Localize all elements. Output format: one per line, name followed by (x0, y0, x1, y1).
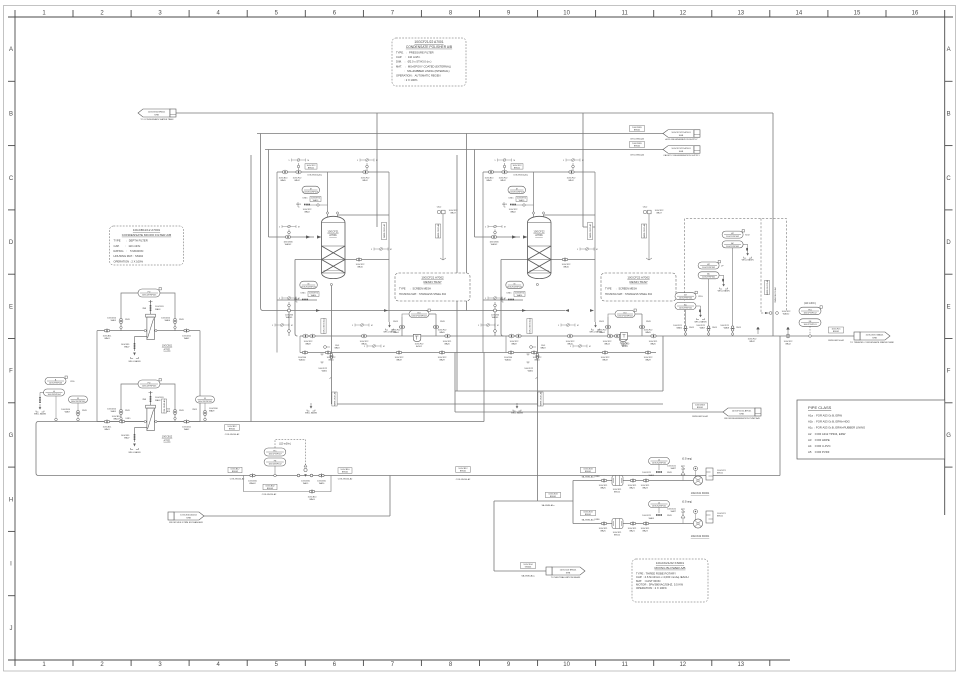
svg-text:10GCB/SP102: 10GCB/SP102 (268, 463, 282, 465)
svg-text:WA12: WA12 (568, 179, 574, 182)
svg-text:10GCF22/SP502: 10GCF22/SP502 (507, 286, 523, 288)
svg-text:DN15: DN15 (667, 515, 672, 517)
svg-text:SWW-GN50-A5: SWW-GN50-A5 (589, 223, 592, 238)
svg-text:CRG: CRG (70, 381, 75, 383)
svg-text:OPERATION : 2 X 100%: OPERATION : 2 X 100% (114, 259, 144, 263)
svg-text:(0.5 barg): (0.5 barg) (682, 501, 692, 504)
svg-text:BR001: BR001 (697, 407, 704, 409)
row H valves (250, 474, 253, 477)
svg-text:10GCF21/22 A7001: 10GCF21/22 A7001 (414, 40, 443, 44)
svg-text:WA102: WA102 (491, 243, 498, 246)
svg-text:DN15: DN15 (301, 293, 306, 295)
svg-text:WA03: WA03 (155, 308, 161, 311)
svg-text:10GCF22 A7002: 10GCF22 A7002 (627, 275, 650, 279)
svg-text:15: 15 (854, 11, 861, 17)
svg-text:G: G (946, 433, 951, 439)
svg-text:10GCK2/SP501: 10GCK2/SP501 (652, 505, 667, 507)
instrument 10GCF22 SP502 (506, 281, 524, 289)
svg-text:TO NEUTRALIZATION BASIN: TO NEUTRALIZATION BASIN (551, 576, 581, 579)
svg-text:10GCK22 KN001: 10GCK22 KN001 (691, 535, 710, 538)
instrument 10GCF22 SP501 (508, 186, 526, 194)
svg-text:10GCW10 BR001: 10GCW10 BR001 (148, 112, 166, 114)
svg-text:E: E (947, 304, 951, 310)
svg-text:CRG-GN50-A4: CRG-GN50-A4 (630, 154, 645, 157)
svg-text:WA27: WA27 (671, 467, 677, 470)
svg-text:WA18: WA18 (540, 347, 545, 350)
analyzer stack 10GCP/SP301 (698, 262, 719, 269)
svg-text:A2 : FOR A312 TP304, ERW: A2 : FOR A312 TP304, ERW (808, 432, 846, 436)
svg-text:(0.5 barg): (0.5 barg) (682, 458, 692, 461)
svg-text:5: 5 (352, 325, 353, 327)
flag: to neutralization basin (552, 567, 585, 575)
svg-text:WA002: WA002 (249, 482, 256, 485)
svg-text:14: 14 (796, 11, 803, 17)
svg-text:BR002: BR002 (634, 146, 641, 148)
svg-text:10GCP/SP003: 10GCP/SP003 (49, 382, 63, 384)
svg-text:5: 5 (563, 160, 564, 162)
svg-text:WA05: WA05 (649, 474, 655, 477)
svg-text:BR001: BR001 (634, 130, 641, 132)
svg-text:WA08: WA08 (724, 327, 730, 330)
svg-text:SWW-GN150-A2: SWW-GN150-A2 (692, 415, 709, 418)
svg-text:WA01: WA01 (104, 337, 110, 340)
CB cluster 10GCF22 (643, 210, 647, 214)
svg-text:WA02: WA02 (184, 428, 190, 431)
svg-text:FROM SIDE STRM EXCHANGER: FROM SIDE STRM EXCHANGER (169, 521, 203, 524)
svg-text:10GCB11: 10GCB11 (155, 397, 165, 399)
svg-text:WA04: WA04 (599, 331, 605, 334)
svg-text:DN15: DN15 (712, 327, 717, 329)
svg-text:5: 5 (279, 298, 280, 300)
svg-text:10GCDP/SP500: 10GCDP/SP500 (71, 401, 86, 403)
svg-text:10GCB11: 10GCB11 (162, 345, 173, 348)
svg-text:CON-GN100-A2: CON-GN100-A2 (225, 433, 240, 436)
svg-text:CON-GN150-A2: CON-GN150-A2 (338, 478, 353, 481)
svg-text:CRG: CRG (698, 296, 703, 298)
svg-text:10GCF22: 10GCF22 (533, 230, 545, 234)
svg-text:DN15: DN15 (667, 472, 672, 474)
svg-text:16: 16 (912, 11, 919, 17)
svg-text:TO TREATED CONDENSATE WATER TA: TO TREATED CONDENSATE WATER TANK (850, 341, 894, 344)
svg-text:10GCF22/SP501: 10GCF22/SP501 (509, 191, 525, 193)
svg-text:WA01: WA01 (104, 428, 110, 431)
svg-text:WA11: WA11 (534, 358, 540, 361)
svg-text:10GCP/SP302: 10GCP/SP302 (702, 267, 716, 269)
svg-text:A: A (947, 47, 951, 53)
analyzer stack 10GCP/SP201 (675, 293, 696, 300)
svg-text:WA21: WA21 (629, 530, 635, 533)
resin trap symbol 10GCF21 (413, 334, 421, 341)
svg-text:CON-GN150-A1a: CON-GN150-A1a (307, 173, 323, 176)
svg-text:B: B (947, 112, 951, 118)
svg-text:WA05: WA05 (439, 331, 445, 334)
svg-text:5: 5 (279, 227, 280, 229)
svg-text:DN15: DN15 (296, 204, 301, 206)
vessel 10GCF22 inlet arrow (523, 235, 528, 238)
svg-text:FIC: FIC (273, 450, 277, 452)
svg-text:H: H (9, 497, 13, 503)
bottom drain 10GCF22 (530, 346, 533, 349)
svg-text:A7001: A7001 (164, 349, 172, 352)
svg-text:DN15: DN15 (736, 327, 741, 329)
svg-text:12: 12 (679, 11, 686, 17)
flag: from side stream exchanger (174, 512, 204, 520)
svg-text:BR012: BR012 (614, 492, 621, 494)
header instruments left (45, 378, 66, 385)
svg-text:RO: RO (418, 312, 421, 314)
svg-text:(110 m3/hr.): (110 m3/hr.) (804, 302, 816, 305)
filter 10GCB12 (146, 405, 156, 408)
svg-text:SWW-GN150-A2: SWW-GN150-A2 (774, 287, 777, 303)
svg-text:DN80: DN80 (595, 519, 600, 521)
svg-text:CONDENSATE POLISHER A/B: CONDENSATE POLISHER A/B (406, 45, 453, 49)
svg-text:SWW-GN25-A2: SWW-GN25-A2 (333, 391, 336, 406)
svg-text:WA23: WA23 (642, 487, 648, 490)
svg-text:SWW-GN50-A2: SWW-GN50-A2 (437, 223, 440, 238)
PD instrument 10GCB12 (138, 380, 160, 388)
inlet valve 10GCF22 (491, 236, 494, 239)
svg-text:RESIN TRAP: RESIN TRAP (630, 280, 648, 284)
svg-text:DN15: DN15 (179, 319, 184, 321)
svg-text:12: 12 (679, 662, 686, 668)
svg-text:WA12: WA12 (785, 343, 791, 346)
svg-text:10GCF21/22 A7001: 10GCF21/22 A7001 (671, 147, 691, 150)
svg-text:5: 5 (485, 298, 486, 300)
svg-text:5: 5 (558, 325, 559, 327)
svg-text:HOUSING MAT. : STAINLESS STEEL: HOUSING MAT. : STAINLESS STEEL 304 (399, 293, 447, 296)
main pipe runs (36, 113, 855, 571)
svg-text:WA18: WA18 (334, 347, 339, 350)
flag: caustic regeneration supply (663, 146, 694, 154)
svg-text:A: A (9, 47, 13, 53)
vessel 10GCF22 A7001 (528, 216, 552, 278)
svg-text:(110 m3/hr.): (110 m3/hr.) (279, 443, 291, 446)
svg-text:CON-GN150-A2: CON-GN150-A2 (262, 493, 277, 496)
svg-text:A4 : FOR U-PVC: A4 : FOR U-PVC (808, 444, 831, 448)
svg-text:SHB: SHB (679, 151, 684, 153)
svg-text:CONDENSATE MICRO FILTER A/B: CONDENSATE MICRO FILTER A/B (122, 233, 171, 237)
svg-text:WELL BASIN: WELL BASIN (129, 360, 141, 363)
svg-text:RO: RO (624, 312, 627, 314)
svg-text:DN15: DN15 (502, 204, 507, 206)
svg-text:D: D (9, 240, 14, 246)
svg-text:5: 5 (364, 346, 365, 348)
svg-text:WA23: WA23 (642, 530, 648, 533)
svg-text:5: 5 (357, 160, 358, 162)
svg-text:10GCW20 WA001: 10GCW20 WA001 (866, 334, 885, 337)
svg-text:10GCF21/22 A7001: 10GCF21/22 A7001 (671, 131, 691, 134)
svg-text:10GCP/SP201: 10GCP/SP201 (679, 307, 693, 309)
product line valves 10GCF22 (509, 335, 512, 338)
product line valves 10GCF21 (303, 335, 306, 338)
pipe class table (797, 400, 945, 459)
svg-text:DN15: DN15 (125, 319, 130, 321)
svg-text:SHB: SHB (566, 572, 571, 574)
svg-text:WA06: WA06 (165, 319, 171, 322)
bottom drain 10GCF21 (324, 346, 327, 349)
svg-text:BR003: BR003 (267, 488, 274, 490)
svg-text:WA04: WA04 (113, 417, 119, 420)
svg-text:CON-GN150-A1a: CON-GN150-A1a (528, 317, 531, 334)
svg-text:10GCK21/22 KN001: 10GCK21/22 KN001 (656, 561, 684, 565)
svg-text:BR011: BR011 (308, 168, 315, 170)
svg-text:BR001: BR001 (550, 496, 557, 498)
svg-text:WELL BASIN: WELL BASIN (695, 320, 707, 323)
svg-text:SWW-GN25-A2: SWW-GN25-A2 (539, 391, 542, 406)
svg-text:DN15: DN15 (599, 321, 604, 323)
svg-text:WELL BASIN: WELL BASIN (742, 259, 754, 262)
svg-text:10GCB11: 10GCB11 (155, 306, 165, 308)
svg-text:DN15: DN15 (303, 198, 308, 200)
svg-text:TO CONDENSATE WATER TANK: TO CONDENSATE WATER TANK (140, 118, 174, 121)
svg-text:5: 5 (272, 325, 273, 327)
backwash header valves 10GCF22 (508, 351, 511, 354)
title box: mixing blower (632, 559, 708, 602)
svg-text:10GCB/SP004: 10GCB/SP004 (47, 394, 61, 396)
svg-text:WA19: WA19 (303, 482, 309, 485)
svg-text:SA-GN80-A1a: SA-GN80-A1a (542, 504, 556, 507)
svg-text:BR011: BR011 (514, 168, 521, 170)
svg-text:WA102: WA102 (299, 358, 306, 361)
svg-text:WA25: WA25 (600, 487, 606, 490)
svg-text:WA09: WA09 (305, 343, 311, 346)
svg-text:B: B (9, 112, 13, 118)
svg-text:CON-GN150-A1a: CON-GN150-A1a (322, 317, 325, 334)
svg-text:WA07: WA07 (124, 346, 130, 349)
svg-text:WA12: WA12 (500, 179, 506, 182)
svg-text:WA103: WA103 (286, 316, 293, 319)
svg-text:WA21: WA21 (629, 487, 635, 490)
svg-text:WA12: WA12 (749, 340, 755, 343)
svg-text:DN15: DN15 (125, 410, 130, 412)
svg-text:SA-GN80-A1a: SA-GN80-A1a (582, 476, 596, 479)
svg-text:TYPE. : PRESSURE FILTER: TYPE. : PRESSURE FILTER (396, 51, 434, 55)
flag: acid regeneration supply (663, 130, 694, 138)
svg-text:TYPE : DEPTH FILTER: TYPE : DEPTH FILTER (114, 239, 148, 243)
svg-text:WA10: WA10 (621, 344, 627, 347)
svg-text:10GCP/SP101: 10GCP/SP101 (803, 324, 817, 326)
svg-text:10GCK21: 10GCK21 (642, 515, 652, 517)
svg-text:10GCF21 A7002: 10GCF21 A7002 (421, 275, 444, 279)
svg-text:WA29: WA29 (645, 358, 651, 361)
instrument 10GCF21 SP502 (300, 281, 318, 289)
svg-text:A1c : FOR A53 Gr.B, ERW+RUBBE: A1c : FOR A53 Gr.B, ERW+RUBBER LINING (808, 426, 865, 430)
svg-text:WA13: WA13 (519, 199, 525, 202)
svg-text:CAP. : 110 m3/hr.: CAP. : 110 m3/hr. (114, 244, 142, 248)
svg-text:SHB: SHB (154, 114, 159, 116)
svg-text:WA02: WA02 (510, 210, 516, 213)
svg-text:WA14: WA14 (311, 294, 317, 297)
svg-text:A7001: A7001 (329, 233, 337, 237)
svg-text:DN15: DN15 (646, 321, 651, 323)
svg-text:BR011: BR011 (717, 516, 724, 518)
micro filter 10GCB12 piping (97, 384, 200, 442)
svg-text:WA21: WA21 (528, 370, 534, 373)
svg-text:CON-GN150-A2: CON-GN150-A2 (230, 478, 245, 481)
filter 10GCB11 (146, 314, 156, 317)
blower train 10GCK21 (581, 467, 596, 473)
resin trap symbol 10GCF22 (619, 334, 627, 341)
svg-text:C: C (946, 176, 951, 182)
svg-text:WA20: WA20 (444, 343, 450, 346)
svg-text:10GCB11/12 A7001: 10GCB11/12 A7001 (133, 228, 161, 232)
svg-text:2M8: 2M8 (142, 308, 146, 310)
svg-text:5: 5 (485, 227, 486, 229)
svg-text:WA04: WA04 (393, 331, 399, 334)
svg-text:WA17: WA17 (450, 212, 456, 215)
svg-text:WA07: WA07 (700, 327, 706, 330)
svg-text:CON-GN80-A1c: CON-GN80-A1c (163, 399, 166, 413)
polisher unit 10GCF22 piping (475, 172, 643, 353)
svg-text:C: C (9, 176, 14, 182)
svg-text:GN004: GN004 (525, 567, 532, 569)
svg-text:10GCK21: 10GCK21 (642, 472, 652, 474)
svg-text:A1a : FOR A53 Gr.B, ERW: A1a : FOR A53 Gr.B, ERW (808, 414, 842, 418)
svg-text:WA16: WA16 (563, 266, 569, 269)
svg-text:5: 5 (495, 160, 496, 162)
svg-text:WA152: WA152 (783, 313, 790, 316)
CB cluster 10GCF21 (437, 210, 441, 214)
svg-text:WA05: WA05 (111, 410, 117, 413)
title box: condensate micro filter (110, 226, 184, 265)
micro filter 10GCB11 piping (97, 293, 200, 422)
svg-text:10GCF21: 10GCF21 (327, 230, 339, 234)
svg-text:WA102: WA102 (285, 243, 292, 246)
svg-text:E: E (9, 304, 13, 310)
resin trap box 10GCF22 (601, 273, 676, 301)
svg-text:10GCP/SP102: 10GCP/SP102 (803, 312, 817, 314)
svg-text:DN15: DN15 (509, 198, 514, 200)
svg-text:G: G (9, 433, 14, 439)
product line fittings right (607, 335, 610, 338)
svg-text:10: 10 (563, 662, 570, 668)
svg-text:WA03: WA03 (309, 498, 315, 501)
svg-text:WA14: WA14 (517, 294, 523, 297)
svg-text:WA27: WA27 (671, 510, 677, 513)
backwash header valves 10GCF21 (302, 351, 305, 354)
svg-text:DN15: DN15 (689, 327, 694, 329)
valves on top pipe 10GCF22 (488, 171, 491, 174)
svg-text:WA06: WA06 (677, 327, 683, 330)
svg-text:13: 13 (737, 662, 744, 668)
svg-text:A7002: A7002 (416, 345, 423, 348)
svg-text:WELL BASIN: WELL BASIN (718, 290, 730, 293)
svg-text:A7001: A7001 (164, 440, 172, 443)
svg-text:ACID REGENERATION SUPPLY: ACID REGENERATION SUPPLY (665, 138, 698, 141)
svg-text:10GCF22/SP504: 10GCF22/SP504 (411, 315, 427, 317)
svg-text:DN80: DN80 (595, 476, 600, 478)
recycle line valve (769, 312, 772, 315)
svg-text:CRG-GN50-A5: CRG-GN50-A5 (630, 138, 645, 141)
analyzer dashed enclosure (685, 219, 787, 332)
svg-text:2M8: 2M8 (142, 399, 146, 401)
svg-text:10GCP/SP301: 10GCP/SP301 (702, 277, 716, 279)
filter 10GCB12 head valves (149, 393, 153, 395)
svg-text:BR001: BR001 (460, 471, 467, 473)
drain valve 10GCF21 (356, 258, 359, 261)
svg-text:SHB: SHB (872, 337, 877, 339)
flow element on product line (757, 327, 760, 334)
svg-text:10: 10 (563, 11, 570, 17)
svg-text:WA13: WA13 (604, 343, 610, 346)
filter 10GCB11 drain (134, 343, 136, 345)
svg-text:DN15: DN15 (179, 410, 184, 412)
svg-text:WELL BASIN: WELL BASIN (305, 412, 317, 415)
svg-text:CON-GN150-A1a: CON-GN150-A1a (513, 173, 529, 176)
drain valve 10GCF22 (562, 258, 565, 261)
svg-text:10GCK2/SP501: 10GCK2/SP501 (652, 462, 667, 464)
svg-text:DIM. : Ø2.0 x ST:H3.0 (m.: DIM. : Ø2.0 x ST:H3.0 (m.) (396, 60, 431, 64)
svg-text:11: 11 (622, 11, 629, 17)
blower train 10GCK22 (581, 510, 596, 516)
svg-text:WA21: WA21 (322, 370, 328, 373)
svg-text:WA05: WA05 (111, 319, 117, 322)
vessel 10GCF21 A7001 (322, 216, 346, 278)
flag: to treated condensate water tank (860, 332, 890, 340)
svg-text:WA09: WA09 (511, 343, 517, 346)
svg-text:BR001: BR001 (585, 471, 592, 473)
svg-text:WELL BASIN: WELL BASIN (34, 413, 46, 416)
svg-text:2M15: 2M15 (192, 409, 197, 411)
svg-text:DN15: DN15 (126, 418, 131, 420)
svg-text:FROM REGENERATION PUMP A/B: FROM REGENERATION PUMP A/B (724, 417, 760, 420)
svg-text:WA02: WA02 (184, 337, 190, 340)
svg-text:WA05: WA05 (486, 179, 492, 182)
svg-text:DN15: DN15 (507, 293, 512, 295)
svg-text:10GCP/SP507: 10GCP/SP507 (268, 453, 282, 455)
RO instrument 10GCF21 (409, 311, 429, 318)
inlet valve 10GCF21 (285, 236, 288, 239)
svg-text:10GCDP/SP005: 10GCDP/SP005 (142, 294, 157, 296)
svg-text:10GCS-N BR001: 10GCS-N BR001 (560, 570, 578, 572)
svg-text:WA03: WA03 (155, 399, 161, 402)
svg-text:MAT. : MS+EPOXY COATED (E: MAT. : MS+EPOXY COATED (EXTERNAL) (396, 64, 451, 68)
svg-text:SHB: SHB (679, 135, 684, 137)
svg-text:TYPE : SCREEN MESH: TYPE : SCREEN MESH (399, 288, 431, 291)
RO instrument 10GCF22 (615, 311, 635, 318)
svg-text:10GCK21 KN001: 10GCK21 KN001 (691, 492, 710, 495)
svg-text:OPERATION : AUTOMATIC REGEN: OPERATION : AUTOMATIC REGEN (396, 73, 441, 77)
svg-text:CAUSTIC REGENERATION SUPPLY: CAUSTIC REGENERATION SUPPLY (663, 154, 700, 157)
regen line valve 10GCF22 (494, 309, 497, 312)
bypass loop row H (244, 476, 332, 492)
svg-text:10GCF22/SP504: 10GCF22/SP504 (617, 315, 633, 317)
svg-text:BR011: BR011 (717, 473, 724, 475)
svg-text:WA20: WA20 (650, 343, 656, 346)
svg-text:HOUSING MAT. : SS304: HOUSING MAT. : SS304 (114, 254, 144, 258)
svg-text:BR001: BR001 (833, 331, 840, 333)
svg-text:WA12: WA12 (362, 179, 368, 182)
svg-text:10GCDP/SP005: 10GCDP/SP005 (142, 385, 157, 387)
svg-text:BR002: BR002 (232, 471, 239, 473)
svg-text:5: 5 (371, 249, 372, 251)
svg-text:WA13: WA13 (313, 199, 319, 202)
svg-text:DN15: DN15 (82, 410, 87, 412)
svg-text:HOUSING MAT. : STAINLESS STEEL: HOUSING MAT. : STAINLESS STEEL 304 (605, 293, 653, 296)
svg-text:WA05: WA05 (280, 179, 286, 182)
svg-text:A5 : FOR PVDF: A5 : FOR PVDF (808, 450, 830, 454)
svg-text:A7001: A7001 (535, 233, 543, 237)
flag: from regeneration pump (723, 408, 755, 416)
svg-text:DN15: DN15 (393, 321, 398, 323)
svg-text:: MS+RUBBER LINING (INTERNAL: : MS+RUBBER LINING (INTERNAL) (396, 69, 450, 73)
svg-text:WA17: WA17 (656, 212, 662, 215)
svg-text:WELL BASIN: WELL BASIN (511, 412, 523, 415)
svg-text:WA05: WA05 (645, 331, 651, 334)
svg-text:WA12: WA12 (294, 179, 300, 182)
flow nozzle (304, 464, 307, 467)
M pump ovals on header (69, 396, 88, 403)
